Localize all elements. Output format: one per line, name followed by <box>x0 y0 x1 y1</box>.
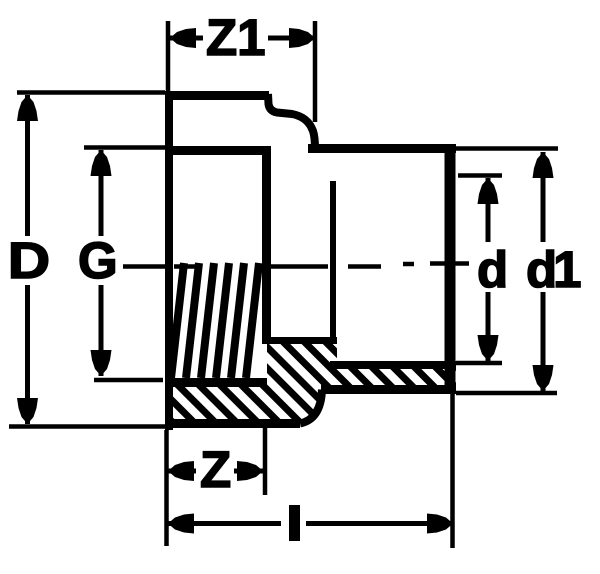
d1 top extension line <box>456 146 558 151</box>
d bottom arrow <box>478 335 499 361</box>
l right arrow <box>427 514 453 534</box>
d1 top arrow <box>533 152 554 178</box>
internal shoulder shelf <box>262 337 337 344</box>
body right edge <box>445 144 456 394</box>
Z1 dimension line <box>170 36 203 41</box>
Z1 left extension line <box>166 21 171 91</box>
d bottom extension line <box>456 361 502 366</box>
centerline <box>123 264 469 267</box>
thread end step vertical <box>262 146 271 341</box>
d1 bottom extension line <box>456 391 557 396</box>
bore top edge <box>169 146 269 155</box>
svg-text:Z: Z <box>200 441 231 498</box>
svg-text:D: D <box>8 232 50 290</box>
G bottom extension line <box>94 378 163 383</box>
d top extension line <box>458 173 502 178</box>
svg-text:Z1: Z1 <box>206 9 266 66</box>
thread hatching lines <box>171 263 259 378</box>
svg-text:d: d <box>477 241 508 298</box>
Z left arrow <box>168 461 194 481</box>
d dimension line <box>486 178 491 242</box>
hatched section region lower half <box>165 340 456 423</box>
body left edge <box>165 91 173 430</box>
svg-text:G: G <box>78 232 118 289</box>
body right bottom edge <box>321 385 456 394</box>
l left arrow <box>168 514 194 534</box>
svg-text:d1: d1 <box>526 241 580 298</box>
l right extension line <box>450 390 455 548</box>
d1 dimension line <box>541 152 546 242</box>
l dimension line <box>168 521 281 526</box>
Z left extension line <box>164 430 169 546</box>
body top edge <box>165 91 269 100</box>
body bottom edge <box>165 419 300 428</box>
d top arrow <box>478 178 499 204</box>
thread bore bottom line <box>165 378 267 387</box>
Z1 left arrow <box>170 28 196 48</box>
G dimension line <box>99 150 104 236</box>
d1 bottom arrow <box>533 365 554 391</box>
body step S-curve <box>268 94 315 149</box>
D top extension line <box>17 90 165 95</box>
Z dimension line <box>168 469 196 474</box>
socket bore bottom line <box>330 361 456 369</box>
body right top edge <box>308 144 456 153</box>
D top arrow <box>17 95 38 121</box>
D bottom arrow <box>17 398 38 424</box>
label l <box>289 505 300 541</box>
G bottom arrow <box>91 350 112 376</box>
G top arrow <box>91 150 112 176</box>
Z1 right arrow <box>289 28 315 48</box>
G top extension line <box>84 145 165 150</box>
Z right extension line <box>263 428 268 495</box>
Z right arrow <box>237 461 263 481</box>
D dimension line <box>25 95 30 236</box>
socket end inner vertical <box>330 181 336 344</box>
body bottom fillet <box>300 390 322 424</box>
D bottom extension line <box>9 424 165 429</box>
Z1 right extension line <box>313 21 318 122</box>
